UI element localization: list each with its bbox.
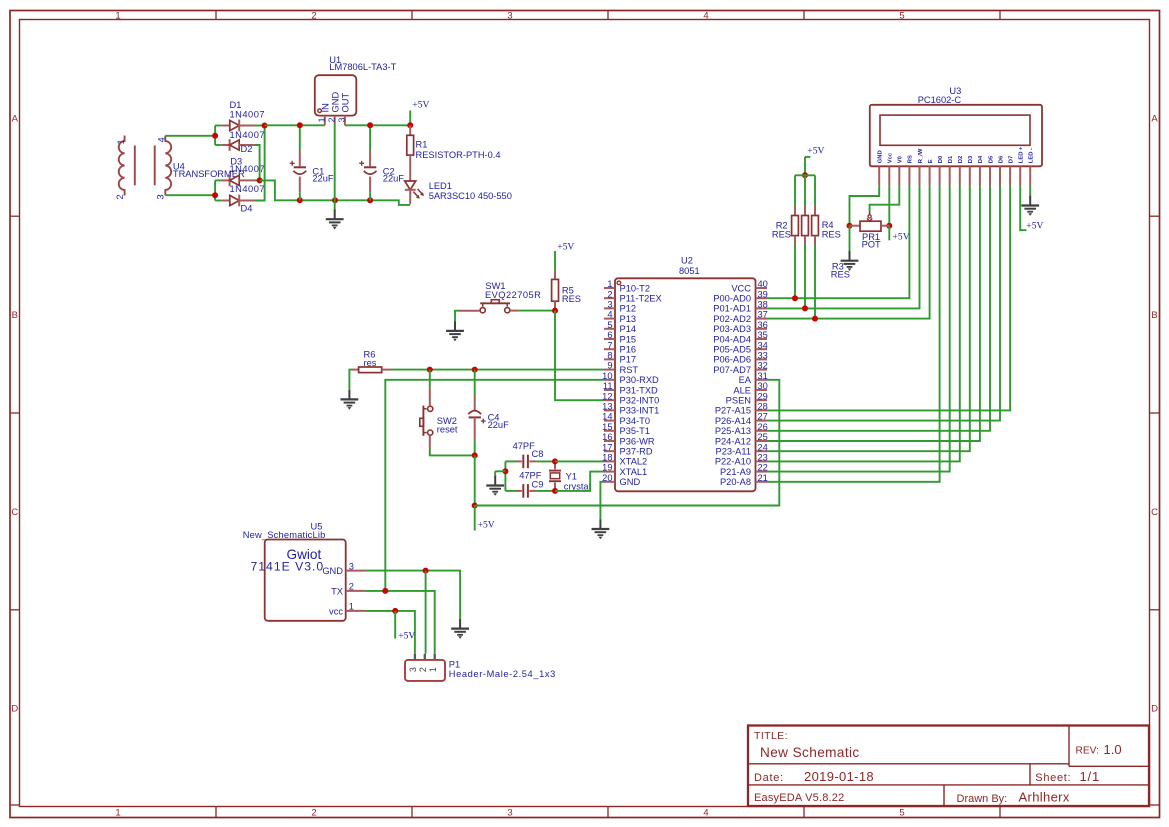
- resistor R6 res: [352, 350, 393, 373]
- svg-text:D4: D4: [978, 155, 984, 163]
- title block: [748, 726, 1149, 807]
- svg-text:30: 30: [758, 381, 768, 391]
- U2 pin 29 PSEN: [726, 391, 768, 405]
- svg-text:C8: C8: [532, 449, 544, 459]
- wire U5 GND to ground: [366, 571, 461, 619]
- svg-text:38: 38: [758, 300, 768, 310]
- U2 pin 38 P01-AD1: [713, 300, 768, 314]
- U2 pin 4 P13: [604, 310, 636, 324]
- svg-text:P07-AD7: P07-AD7: [713, 365, 751, 375]
- U2 pin 40 VCC: [731, 279, 767, 293]
- potentiometer PR1 POT: [850, 212, 890, 250]
- wire C4 node down to EA net: [474, 455, 476, 505]
- junction pot left node: [847, 223, 853, 229]
- svg-text:1N4007: 1N4007: [230, 184, 266, 194]
- svg-text:P33-INT1: P33-INT1: [620, 406, 660, 416]
- svg-text:D6: D6: [998, 155, 1004, 163]
- svg-text:+5V: +5V: [398, 631, 415, 642]
- junction RST/C4 node: [472, 367, 478, 373]
- wire LCD D5 to P25: [767, 186, 990, 431]
- svg-text:26: 26: [758, 422, 768, 432]
- svg-text:+5V: +5V: [1026, 220, 1043, 231]
- U2 pin 34 P05-AD5: [713, 340, 768, 354]
- junction bridge gnd node: [257, 177, 263, 183]
- svg-text:2: 2: [327, 117, 337, 122]
- U2 pin 14 P34-T0: [602, 412, 650, 426]
- U2 pin 31 EA: [739, 371, 768, 385]
- op-amp U2 8051 MCU: [615, 256, 756, 492]
- svg-text:P06-AD6: P06-AD6: [713, 355, 751, 365]
- U2 pin 19 XTAL1: [602, 463, 647, 477]
- svg-text:P16: P16: [620, 345, 637, 355]
- capacitor C9 47PF: [517, 471, 544, 498]
- svg-text:+5V: +5V: [412, 100, 429, 111]
- svg-text:D7: D7: [1008, 156, 1014, 163]
- wire XTAL1 net: [555, 472, 604, 491]
- ground (U5): [451, 619, 469, 639]
- svg-text:PSEN: PSEN: [726, 396, 751, 406]
- wire to D1 anode: [215, 125, 222, 127]
- diode D3: [222, 175, 255, 187]
- wire C1 bottom: [299, 192, 301, 200]
- junction pullup +5V node: [802, 172, 808, 178]
- svg-text:Y1: Y1: [566, 471, 577, 481]
- svg-text:New Schematic: New Schematic: [760, 745, 860, 760]
- wire D1 cathode to V+ node: [255, 125, 265, 127]
- junction XTAL1 node: [552, 488, 558, 494]
- wire V+ rail to U1 IN: [265, 124, 325, 126]
- wire LCD D7 to P27: [767, 186, 1010, 410]
- U3 pin 2 Vcc: [888, 152, 894, 186]
- svg-text:P10-T2: P10-T2: [620, 283, 651, 293]
- U3 pin 11 D4: [978, 155, 984, 186]
- junction V+ node: [262, 123, 268, 129]
- svg-text:GND: GND: [620, 477, 641, 487]
- svg-text:12: 12: [602, 391, 612, 401]
- svg-text:5: 5: [899, 11, 904, 22]
- svg-text:P23-A11: P23-A11: [716, 447, 752, 457]
- U1 pin 1: [316, 116, 326, 126]
- resistor R5 RES: [552, 270, 581, 310]
- svg-text:GND: GND: [322, 566, 343, 576]
- U2 pin 39 P00-AD0: [713, 289, 768, 303]
- svg-text:P27-A15: P27-A15: [715, 406, 751, 416]
- U2 pin 6 P15: [604, 330, 636, 344]
- wire to D2 cathode: [215, 144, 222, 146]
- svg-text:P26-A14: P26-A14: [715, 416, 751, 426]
- wire C8/C9 left vertical: [504, 461, 506, 491]
- wire LCD E to P02-AD2: [767, 186, 930, 319]
- svg-text:GND: GND: [878, 150, 884, 163]
- svg-text:RES: RES: [822, 230, 841, 240]
- svg-text:2: 2: [311, 808, 316, 819]
- svg-text:22uF: 22uF: [488, 420, 510, 430]
- svg-text:P05-AD5: P05-AD5: [713, 345, 751, 355]
- svg-text:TX: TX: [331, 586, 343, 596]
- wire AC2 riser: [214, 180, 216, 200]
- wire pot left to ground: [849, 226, 851, 251]
- net flag +5V at U5 vcc: [395, 611, 415, 642]
- U1 pin 3: [336, 116, 346, 126]
- svg-text:P04-AD4: P04-AD4: [713, 334, 751, 344]
- svg-text:P21-A9: P21-A9: [720, 467, 751, 477]
- svg-text:16: 16: [602, 432, 612, 442]
- svg-text:P37-RD: P37-RD: [620, 447, 653, 457]
- svg-text:33: 33: [758, 351, 768, 361]
- wire crystal gnd branch: [495, 470, 505, 472]
- svg-text:1N4007: 1N4007: [230, 110, 266, 120]
- svg-text:P35-T1: P35-T1: [620, 426, 651, 436]
- resistor R1 RESISTOR-PTH-0.4: [407, 125, 501, 181]
- wire C2 top: [369, 125, 371, 150]
- wire LCD V0 to pot wiper: [870, 186, 900, 211]
- svg-text:D2: D2: [241, 144, 253, 154]
- ground (U2): [592, 519, 610, 539]
- svg-text:P30-RXD: P30-RXD: [620, 375, 660, 385]
- svg-text:14: 14: [602, 412, 612, 422]
- wire ground rail to LED1 cathode: [370, 200, 410, 205]
- svg-text:P13: P13: [620, 314, 637, 324]
- transformer U4: [115, 136, 245, 200]
- svg-text:P24-A12: P24-A12: [715, 436, 751, 446]
- svg-text:Vcc: Vcc: [888, 152, 894, 163]
- svg-text:3: 3: [349, 561, 354, 571]
- U1 pin 2: [327, 116, 337, 124]
- junction TX node: [382, 588, 388, 594]
- ground (SW1): [446, 321, 464, 341]
- junction C2- node: [367, 197, 373, 203]
- svg-text:P12: P12: [620, 304, 637, 314]
- svg-text:4: 4: [703, 808, 708, 819]
- wire C4 bottom: [474, 441, 476, 456]
- svg-text:LED1: LED1: [429, 181, 452, 191]
- wire R2 to U2: [794, 245, 796, 299]
- svg-text:EasyEDA V5.8.22: EasyEDA V5.8.22: [754, 792, 844, 804]
- svg-text:E: E: [928, 159, 934, 163]
- junction XTAL2 node: [552, 458, 558, 464]
- svg-text:2019-01-18: 2019-01-18: [804, 769, 874, 784]
- U2 pin 10 P30-RXD: [602, 371, 659, 385]
- capacitor C2 22uF: [359, 151, 404, 193]
- svg-text:R1: R1: [416, 140, 428, 150]
- junction crystal gnd node: [502, 468, 508, 474]
- svg-text:2: 2: [607, 289, 612, 299]
- svg-text:A: A: [1151, 113, 1158, 124]
- U2 pin 21 P20-A8: [720, 473, 768, 487]
- svg-text:40: 40: [758, 279, 768, 289]
- wire SW1 to R5 bottom: [519, 310, 555, 312]
- wire C9 left: [505, 490, 516, 492]
- wire LCD RS to P00-AD0: [767, 186, 909, 298]
- svg-text:reset: reset: [437, 424, 458, 434]
- U3 pin 10 D3: [968, 155, 974, 186]
- U2 pin 17 P37-RD: [602, 442, 653, 456]
- U2 pin 11 P31-TXD: [603, 381, 658, 395]
- wire RST node down to SW2: [429, 370, 431, 388]
- svg-text:3: 3: [607, 300, 612, 310]
- U2 pin 35 P04-AD4: [713, 330, 768, 344]
- ground (R6): [341, 390, 359, 410]
- U2 pin 2 P11-T2EX: [604, 289, 662, 303]
- wire R3 to U2: [804, 245, 806, 309]
- wire LCD LED- to ground: [1029, 186, 1031, 196]
- ground (PR1): [841, 251, 859, 271]
- svg-text:RST: RST: [620, 365, 639, 375]
- svg-text:+5V: +5V: [478, 520, 495, 531]
- svg-text:8051: 8051: [679, 266, 700, 276]
- junction U5 GND node: [423, 568, 429, 574]
- svg-text:24: 24: [758, 442, 768, 452]
- svg-text:P01-AD1: P01-AD1: [713, 304, 751, 314]
- wire transformer pin4 to bridge: [165, 135, 215, 137]
- U2 pin 26 P25-A13: [715, 422, 768, 436]
- wire bridge gnd to C1-: [260, 180, 300, 200]
- LED LED1 5AR3SC10 450-550: [405, 181, 512, 204]
- svg-text:D: D: [11, 703, 18, 714]
- svg-text:2: 2: [349, 582, 354, 592]
- U5 pin 1 vcc: [329, 602, 365, 617]
- U5 pin 3 GND: [322, 561, 365, 576]
- svg-text:Sheet:: Sheet:: [1035, 772, 1071, 784]
- junction C2+ node: [367, 122, 373, 128]
- svg-text:P03-AD3: P03-AD3: [713, 324, 751, 334]
- svg-text:1: 1: [349, 602, 354, 612]
- U2 pin 30 ALE: [733, 381, 767, 395]
- svg-text:23: 23: [758, 453, 768, 463]
- svg-text:+5V: +5V: [557, 241, 574, 252]
- net flag +5V at pot right: [889, 226, 909, 243]
- resistor R3 RES: [802, 175, 809, 244]
- svg-text:17: 17: [602, 442, 612, 452]
- junction vcc node: [392, 608, 398, 614]
- junction R4 node: [812, 316, 818, 322]
- svg-text:XTAL2: XTAL2: [620, 457, 648, 467]
- svg-text:1: 1: [607, 279, 612, 289]
- junction R5/SW1 node: [552, 308, 558, 314]
- crystal Y1: [549, 461, 591, 491]
- U2 pin 23 P22-A10: [715, 453, 768, 467]
- svg-text:5: 5: [899, 808, 904, 819]
- svg-text:XTAL1: XTAL1: [620, 467, 648, 477]
- capacitor C1 22uF: [290, 151, 334, 193]
- svg-text:27: 27: [758, 412, 768, 422]
- junction C1+ node: [297, 122, 303, 128]
- resistor R2 RES: [772, 175, 798, 244]
- svg-text:2: 2: [418, 667, 428, 672]
- wire EA net: [475, 380, 780, 506]
- svg-text:D2: D2: [958, 156, 964, 163]
- svg-text:P25-A13: P25-A13: [715, 426, 751, 436]
- svg-text:7: 7: [607, 340, 612, 350]
- wire LCD GND to pot left: [850, 186, 880, 226]
- switch SW1 EVQ22705R: [460, 281, 542, 313]
- U3 pin 7 D0: [938, 156, 944, 186]
- svg-text:D1: D1: [948, 155, 954, 163]
- wire U1 GND pin down to ground: [334, 124, 336, 210]
- svg-text:5AR3SC10 450-550: 5AR3SC10 450-550: [429, 191, 512, 201]
- svg-text:36: 36: [758, 320, 768, 330]
- svg-text:RES: RES: [772, 229, 791, 239]
- svg-text:C: C: [1151, 507, 1158, 518]
- U2 pin 36 P03-AD3: [713, 320, 768, 334]
- svg-text:P36-WR: P36-WR: [620, 436, 655, 446]
- svg-text:P20-A8: P20-A8: [720, 477, 751, 487]
- svg-text:B: B: [12, 310, 18, 321]
- op-amp U1 LM7806L-TA3-T regulator: [315, 55, 397, 116]
- capacitor C4 22uF: [468, 396, 509, 441]
- wire U5 TX to P1 pin1: [366, 591, 435, 654]
- wire R6 left to ground: [349, 370, 351, 390]
- svg-text:3: 3: [336, 117, 346, 122]
- U2 pin 5 P14: [604, 320, 636, 334]
- svg-text:TITLE:: TITLE:: [754, 730, 788, 742]
- svg-text:18: 18: [602, 453, 612, 463]
- wire LCD D6 to P26: [767, 186, 1000, 421]
- U2 pin 1 P10-T2: [604, 279, 650, 293]
- diode D1: [222, 120, 255, 132]
- svg-text:35: 35: [758, 330, 768, 340]
- junction R2 node: [792, 295, 798, 301]
- resistor R4 RES: [812, 175, 841, 244]
- svg-text:9: 9: [607, 361, 612, 371]
- svg-text:P14: P14: [620, 324, 637, 334]
- svg-text:34: 34: [758, 340, 768, 350]
- svg-text:Arhlherx: Arhlherx: [1019, 789, 1070, 804]
- svg-text:P31-TXD: P31-TXD: [620, 385, 659, 395]
- U2 pin 7 P16: [604, 340, 636, 354]
- junction C4-/SW2 node: [472, 452, 478, 458]
- svg-text:RS: RS: [908, 155, 914, 163]
- U2 pin 18 XTAL2: [602, 453, 647, 467]
- net flag +5V at U1 output: [410, 100, 429, 126]
- svg-text:+5V: +5V: [893, 231, 910, 242]
- wire pullup top bus: [795, 174, 815, 176]
- wire ground rail: [300, 199, 370, 201]
- svg-text:D1: D1: [230, 100, 242, 110]
- U3 pin 16 LED -: [1029, 148, 1035, 186]
- wire SW2 bottom to C4 bottom: [430, 449, 475, 456]
- svg-text:4: 4: [703, 11, 708, 22]
- wire V+ riser to D4 cathode: [255, 126, 265, 201]
- svg-text:P34-T0: P34-T0: [620, 416, 651, 426]
- svg-text:IN: IN: [320, 103, 330, 112]
- junction R3 node: [802, 305, 808, 311]
- U2 pin 13 P33-INT1: [602, 402, 659, 416]
- wire to D4 anode: [215, 200, 222, 202]
- U2 pin 12 P32-INT0: [602, 391, 659, 405]
- LCD U3 PC1602-C: [870, 86, 1042, 166]
- U2 pin 8 P17: [604, 351, 636, 365]
- U3 pin 12 D5: [988, 155, 994, 186]
- svg-text:22uF: 22uF: [312, 173, 334, 183]
- wire to D3 cathode: [215, 179, 222, 181]
- svg-text:3: 3: [408, 667, 418, 672]
- ground (main rail): [326, 210, 344, 230]
- junction +5V node at R1: [407, 122, 413, 128]
- U2 pin 27 P26-A14: [715, 412, 768, 426]
- junction U1 gnd node: [332, 197, 338, 203]
- svg-text:ALE: ALE: [733, 385, 751, 395]
- diode D2: [222, 139, 255, 151]
- svg-text:1: 1: [116, 139, 126, 144]
- svg-text:7141E V3.0: 7141E V3.0: [251, 559, 325, 573]
- svg-text:OUT: OUT: [340, 93, 350, 113]
- svg-text:2: 2: [311, 11, 316, 22]
- wire R5/SW1 node to P32-INT0: [555, 311, 604, 401]
- svg-text:31: 31: [758, 371, 768, 381]
- svg-text:EVQ22705R: EVQ22705R: [485, 290, 541, 300]
- U2 pin 28 P27-A15: [715, 402, 768, 416]
- junction pot right node: [886, 223, 892, 229]
- svg-text:P02-AD2: P02-AD2: [713, 314, 751, 324]
- svg-text:2: 2: [115, 194, 125, 199]
- svg-text:POT: POT: [862, 240, 881, 250]
- U2 pin 9 RST: [604, 361, 638, 375]
- wire AC1 riser: [214, 126, 216, 146]
- wire RST net R6 to U2 pin9: [392, 369, 604, 371]
- U2 pin 3 P12: [604, 300, 636, 314]
- svg-text:C9: C9: [532, 479, 544, 489]
- svg-text:21: 21: [758, 473, 768, 483]
- junction RST/SW2 node: [427, 367, 433, 373]
- U2 pin 22 P21-A9: [720, 463, 768, 477]
- svg-text:VCC: VCC: [731, 283, 751, 293]
- svg-text:GND: GND: [330, 92, 340, 113]
- U3 pin 1 GND: [878, 150, 884, 186]
- U3 pin 9 D2: [958, 156, 964, 186]
- wire C2 bottom: [369, 192, 371, 200]
- svg-text:PC1602-C: PC1602-C: [918, 95, 962, 105]
- U2 pin 25 P24-A12: [715, 432, 768, 446]
- svg-text:LED +: LED +: [1019, 146, 1025, 163]
- U2 pin 16 P36-WR: [602, 432, 655, 446]
- ground (LCD backlight): [1021, 196, 1039, 216]
- svg-text:4: 4: [607, 310, 612, 320]
- svg-text:D5: D5: [988, 155, 994, 163]
- junction C1- node: [297, 197, 303, 203]
- svg-text:A: A: [12, 113, 19, 124]
- svg-text:37: 37: [758, 310, 768, 320]
- svg-text:1N4007: 1N4007: [230, 130, 266, 140]
- svg-text:D4: D4: [241, 204, 253, 214]
- svg-text:EA: EA: [739, 375, 752, 385]
- svg-text:1: 1: [316, 117, 326, 122]
- wire LCD D2 to P22: [767, 186, 960, 461]
- svg-text:28: 28: [758, 402, 768, 412]
- net flag +5V above pullups: [805, 146, 825, 176]
- svg-text:+5V: +5V: [807, 146, 824, 157]
- svg-text:25: 25: [758, 432, 768, 442]
- svg-text:Header-Male-2.54_1x3: Header-Male-2.54_1x3: [449, 669, 556, 679]
- svg-text:P32-INT0: P32-INT0: [620, 396, 660, 406]
- svg-text:3: 3: [507, 808, 512, 819]
- svg-text:22: 22: [758, 463, 768, 473]
- svg-text:3: 3: [507, 11, 512, 22]
- svg-text:32: 32: [758, 361, 768, 371]
- wire SW1 to ground: [455, 311, 460, 322]
- svg-text:New_SchematicLib: New_SchematicLib: [243, 530, 326, 540]
- svg-text:11: 11: [603, 381, 613, 391]
- wire XTAL2 net: [555, 460, 604, 462]
- svg-text:4: 4: [157, 137, 167, 142]
- svg-text:R_/W: R_/W: [918, 148, 924, 163]
- svg-text:vcc: vcc: [329, 606, 343, 616]
- diode D4: [222, 195, 255, 207]
- svg-text:P15: P15: [620, 334, 637, 344]
- wire C1 top: [299, 125, 301, 150]
- svg-text:REV:: REV:: [1076, 746, 1099, 757]
- U2 pin 33 P06-AD6: [713, 351, 768, 365]
